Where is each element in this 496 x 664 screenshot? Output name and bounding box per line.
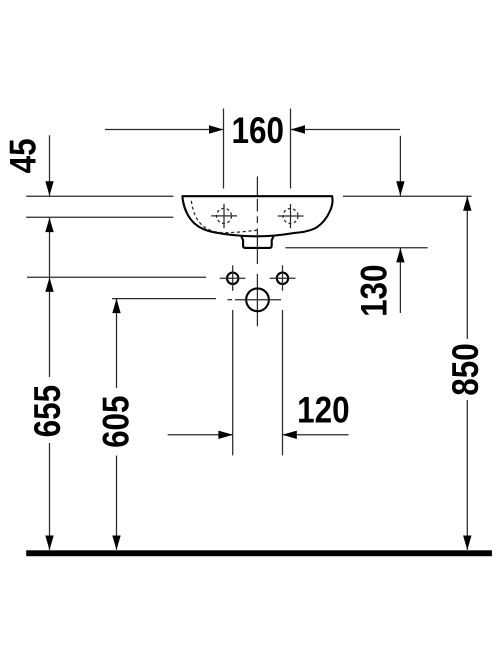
drain level line left: [112, 298, 216, 300]
dim 120 dimension line left segment with right arrow: [168, 434, 233, 436]
hidden bowl dashed curve: [191, 201, 257, 233]
rim level extension line left: [26, 195, 173, 197]
dim 160 dimension line left segment: [105, 129, 224, 131]
drain cross horizontal with short dash: [228, 299, 233, 301]
tap hole right dashed circle: [283, 209, 298, 224]
dim 160 arrow right-pointing: [209, 125, 224, 133]
drain circle: [246, 288, 269, 311]
dim 850 upper line with up arrow: [466, 197, 468, 340]
dim 130 lower tail with up arrow: [399, 248, 401, 313]
mounting hole left cross: [232, 265, 234, 291]
dim 160 extension line right: [290, 109, 292, 189]
tap deck level extension line left: [26, 216, 173, 218]
mounting hole left circle: [227, 273, 238, 284]
dim 160 dimension line right segment: [291, 129, 401, 131]
floor line: [26, 550, 492, 556]
mounting hole right circle: [277, 273, 288, 284]
mounting hole right cross: [282, 265, 284, 291]
centerline vertical segments: [256, 176, 258, 195]
svg-text:605: 605: [96, 395, 137, 447]
svg-text:655: 655: [28, 385, 69, 437]
rim level extension line right: [343, 195, 472, 197]
dim 45 lower line with up arrow, continuing as 655 line: [49, 218, 51, 377]
hole extension vertical left: [232, 310, 234, 455]
dim 605 lower line with down arrow: [116, 456, 118, 550]
dim 850 lower line with down arrow: [466, 400, 468, 550]
hole extension vertical right: [282, 310, 284, 455]
dim 655 lower line with down arrow to floor: [49, 443, 51, 550]
dim 605 upper line with up arrow: [116, 299, 118, 388]
dim 160 arrow left-pointing: [291, 125, 306, 133]
dim 655 up arrow at hole line: [45, 277, 53, 292]
svg-text:130: 130: [354, 264, 395, 316]
mounting hole line left: [27, 276, 206, 278]
svg-text:45: 45: [3, 138, 44, 173]
dim 160 extension line left: [223, 109, 225, 189]
svg-text:160: 160: [232, 111, 284, 152]
dim 130 upper tail with down arrow: [399, 136, 401, 196]
svg-text:120: 120: [297, 390, 349, 431]
tap hole left cross: [223, 204, 225, 228]
drain stub below basin: [241, 237, 273, 248]
outlet level extension line right: [285, 247, 427, 249]
tap hole left dashed circle: [217, 208, 232, 223]
dim 45 upper line with down arrow: [49, 135, 51, 195]
tap hole right cross: [290, 204, 292, 228]
dim 120 dimension line right segment with left arrow: [283, 434, 349, 436]
svg-text:850: 850: [446, 343, 487, 395]
basin outline: [182, 196, 332, 236]
